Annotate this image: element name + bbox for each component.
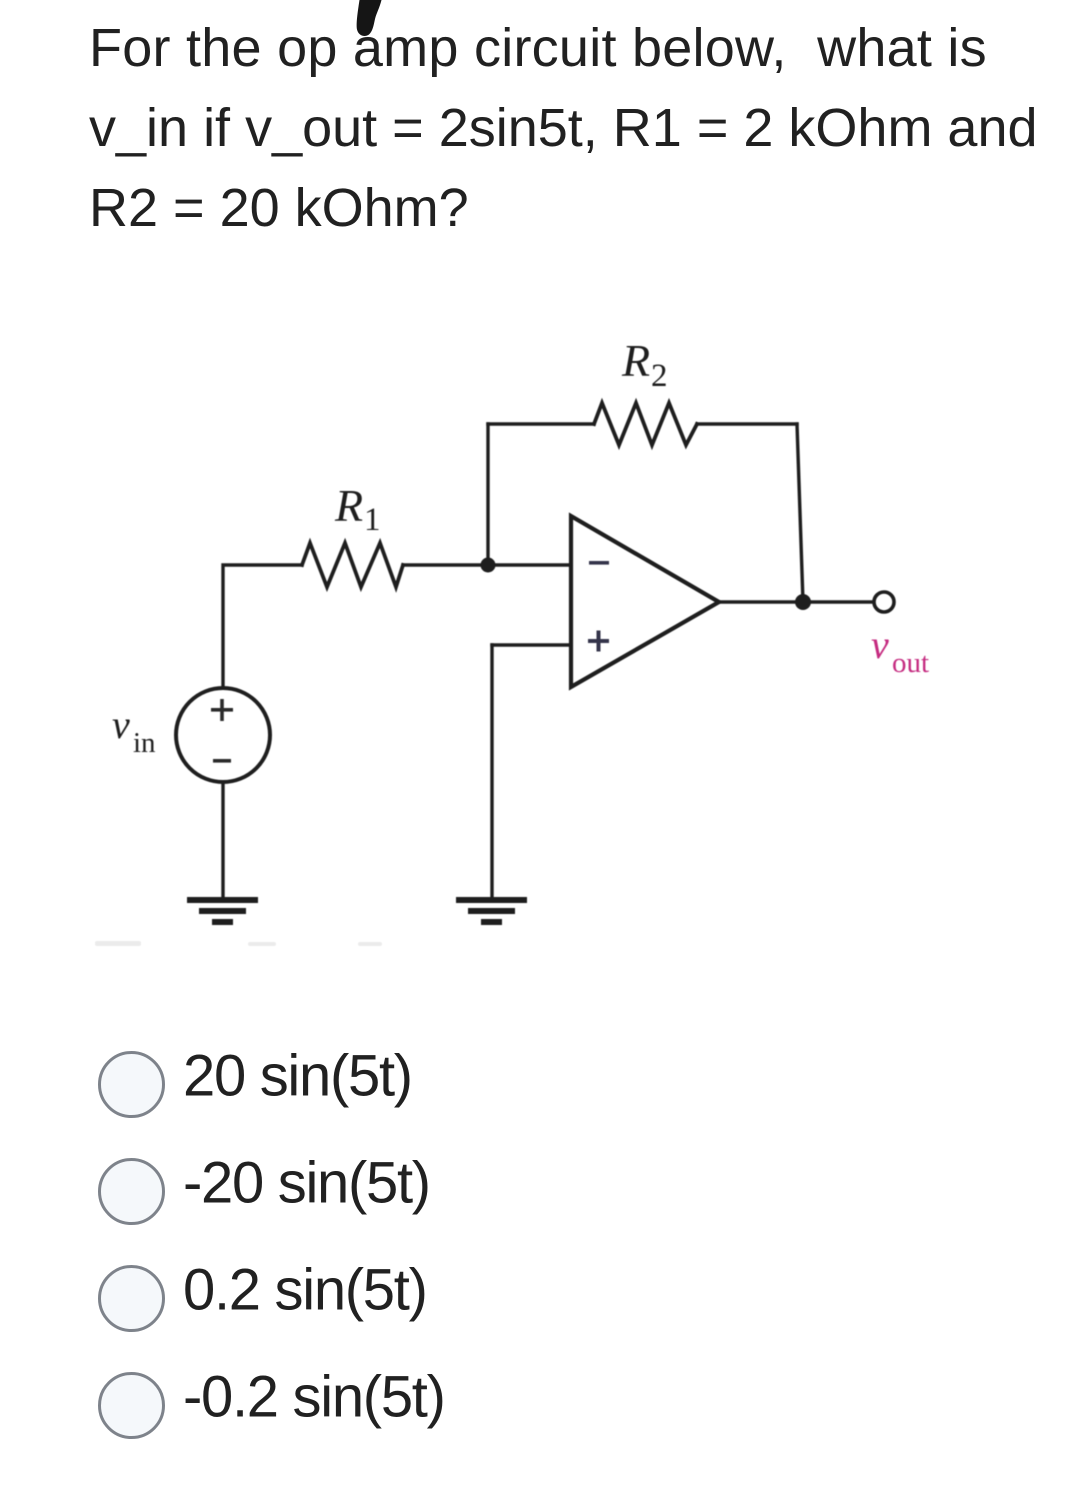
ground (noninverting input)	[456, 897, 527, 925]
faint scan artifacts	[95, 941, 382, 946]
source minus mark	[213, 759, 231, 763]
option D	[98, 1372, 998, 1440]
voltage source vin	[176, 688, 270, 782]
resistor R1	[302, 543, 403, 587]
resistor R2	[594, 403, 697, 445]
svg-text:2: 2	[651, 358, 668, 394]
circuit schematic	[0, 300, 1080, 1040]
svg-text:out: out	[892, 647, 929, 679]
svg-text:R: R	[334, 480, 363, 531]
wire: vin bottom to ground	[221, 782, 224, 899]
svg-text:v: v	[112, 702, 130, 747]
svg-text:R: R	[621, 335, 650, 386]
ground (vin)	[187, 897, 258, 925]
op-amp U1	[571, 516, 719, 687]
source plus mark	[211, 699, 233, 721]
wire: R1 to inverting input	[403, 563, 571, 566]
node: inverting input junction	[481, 558, 496, 573]
option A	[98, 1051, 998, 1119]
terminal: vout open circle	[874, 592, 894, 612]
wire: noninverting input horizontal	[492, 643, 571, 646]
wire: noninverting vertical to ground	[490, 645, 493, 899]
op-amp plus pin label	[588, 631, 609, 652]
option C	[98, 1265, 998, 1333]
cropped glyph artifact (top)	[340, 0, 400, 48]
wire: vin top to R1	[223, 565, 302, 688]
wire: output	[719, 600, 873, 603]
option B	[98, 1158, 998, 1226]
svg-text:v: v	[871, 622, 889, 667]
wire: feedback left vertical	[486, 424, 489, 565]
wire: top left segment	[488, 422, 594, 425]
svg-text:1: 1	[364, 502, 381, 538]
wire: feedback right vertical	[797, 424, 803, 602]
wire: top right segment	[697, 422, 797, 425]
svg-text:in: in	[133, 727, 156, 759]
op-amp minus pin label	[589, 561, 609, 565]
node: output junction	[795, 594, 811, 610]
question text	[89, 8, 1080, 248]
